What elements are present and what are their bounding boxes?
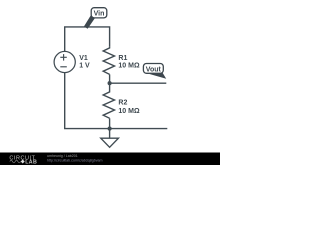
flag Vin pointer [84, 15, 95, 28]
V1 plus sign [60, 54, 67, 67]
svg-text:1 V: 1 V [79, 63, 90, 70]
flag Vout box [143, 64, 163, 74]
resistor R1 [103, 46, 114, 74]
svg-text:Vout: Vout [146, 66, 162, 73]
wire R1 bottom to junction [109, 74, 111, 83]
footer CircuitLab logo wave [10, 160, 21, 163]
V1 minus sign [60, 66, 67, 68]
svg-text:R2: R2 [118, 100, 127, 107]
wire Vout stub [110, 82, 167, 84]
voltage source V1 [54, 51, 75, 72]
footer bar [0, 153, 220, 166]
node junction bottom/ground [108, 127, 112, 131]
svg-text:Vin: Vin [94, 11, 105, 18]
svg-text:LAB: LAB [25, 160, 37, 165]
svg-text:V1: V1 [79, 55, 88, 62]
svg-text:R1: R1 [118, 55, 127, 62]
svg-text:10 MΩ: 10 MΩ [118, 63, 140, 70]
flag Vout pointer [146, 73, 166, 79]
svg-text:10 MΩ: 10 MΩ [118, 108, 140, 115]
flag Vin box [91, 8, 107, 18]
node junction R1/R2/Vout [108, 81, 112, 85]
wire R2 bottom lead [109, 118, 111, 128]
resistor R2 [103, 83, 114, 118]
svg-text:http://circuitlab.com/c/ab3q8g: http://circuitlab.com/c/ab3q8gbvam [47, 158, 103, 162]
wire top net (V1 top to R1 top) [65, 27, 110, 52]
ground [109, 129, 111, 139]
wire V1 bottom to bottom net [65, 72, 168, 128]
footer CircuitLab logo diamond [21, 160, 25, 164]
